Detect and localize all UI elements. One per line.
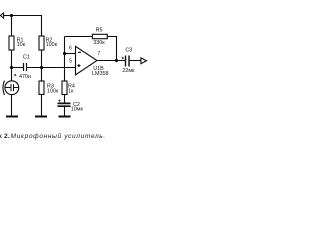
svg-text:10к: 10к (17, 42, 26, 48)
svg-text:к 2.Микрофонный усилитель.: к 2.Микрофонный усилитель. (0, 132, 106, 140)
svg-text:470н: 470н (19, 74, 31, 80)
svg-text:10мк: 10мк (71, 107, 84, 113)
svg-text:6: 6 (69, 46, 72, 52)
svg-text:1к: 1к (68, 88, 74, 94)
svg-text:100к: 100к (46, 42, 58, 48)
svg-text:C3: C3 (125, 47, 132, 53)
svg-text:R5: R5 (96, 28, 103, 34)
svg-text:LM358: LM358 (92, 71, 108, 77)
svg-text:7: 7 (97, 51, 100, 57)
svg-text:330к: 330к (93, 40, 105, 46)
svg-text:5: 5 (69, 58, 72, 64)
svg-text:22мк: 22мк (122, 68, 135, 74)
svg-text:C1: C1 (23, 54, 30, 60)
svg-text:100к: 100к (47, 88, 59, 94)
